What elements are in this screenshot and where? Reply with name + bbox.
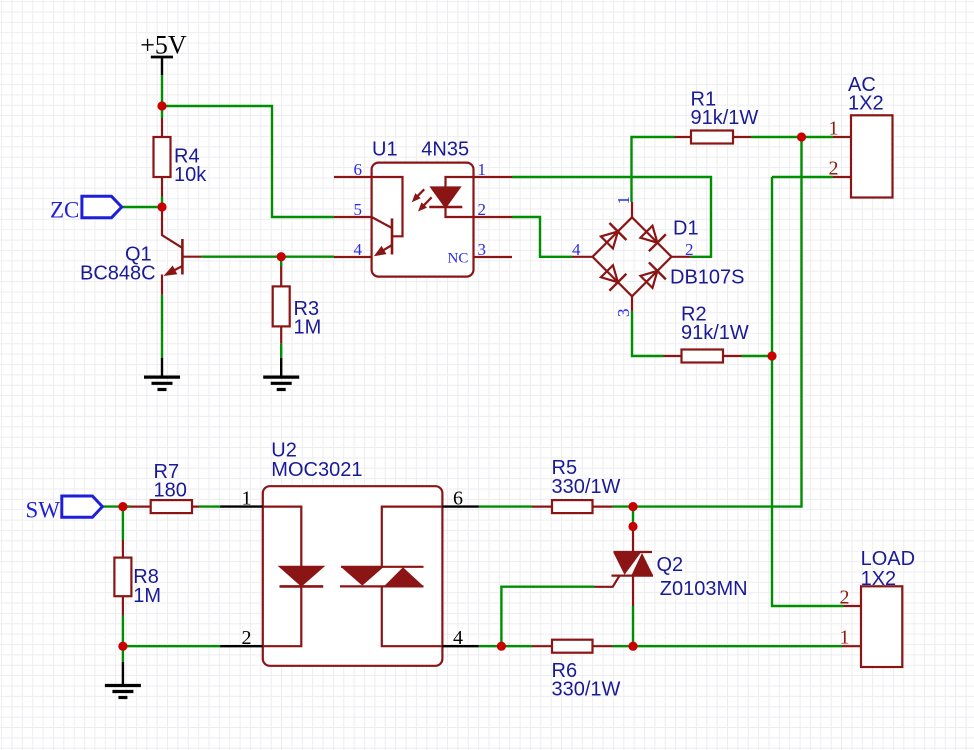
wire ZC port to junction <box>122 206 162 208</box>
svg-text:3: 3 <box>614 309 633 318</box>
D1 diode lower-right <box>638 262 666 290</box>
svg-text:ZC: ZC <box>50 198 79 223</box>
node Q2 top junction lower <box>628 522 637 531</box>
D1 pin 3 stub <box>631 296 633 311</box>
svg-text:Z0103MN: Z0103MN <box>660 578 748 600</box>
svg-text:4N35: 4N35 <box>421 138 469 160</box>
svg-text:330/1W: 330/1W <box>552 476 621 498</box>
svg-text:91k/1W: 91k/1W <box>691 107 759 129</box>
svg-text:NC: NC <box>448 251 469 267</box>
wire bridge pin3 down to R2 left <box>632 311 664 356</box>
svg-text:4: 4 <box>354 240 363 259</box>
ground at R3 <box>263 358 299 389</box>
wire gate net U2 pin4 junction to Q2 gate <box>501 587 594 647</box>
wire Q1 emitter to ground <box>161 295 163 359</box>
ground at R8 / SW net <box>105 662 141 698</box>
resistor R7 <box>130 500 199 513</box>
wire R8 bottom to ground junction <box>122 616 124 663</box>
transistor Q1 <box>162 207 201 295</box>
node R1/AC pin1 junction <box>797 132 806 141</box>
wire R2 right to junction <box>742 355 773 357</box>
port flag SW <box>62 496 103 517</box>
svg-text:91k/1W: 91k/1W <box>681 322 749 344</box>
wire R4 top pin net <box>161 106 163 118</box>
U2 LED <box>263 507 323 647</box>
port flag ZC <box>82 196 122 217</box>
node R5/Q2 top junction upper <box>628 502 637 511</box>
svg-text:1: 1 <box>478 160 487 179</box>
wire Q2 bottom to R6 junction <box>632 606 634 646</box>
connector AC 1X2 <box>833 115 893 197</box>
svg-text:DB107S: DB107S <box>670 267 745 289</box>
svg-text:1X2: 1X2 <box>861 568 897 590</box>
wire Q1 base to R3 to U1 pin4 <box>201 256 334 258</box>
svg-text:1: 1 <box>242 487 252 509</box>
svg-text:180: 180 <box>154 480 187 502</box>
wire AC pin2 down to LOAD pin2 <box>772 177 844 606</box>
wire bridge pin1 up to R1 left <box>632 137 675 202</box>
resistor R6 <box>532 640 613 653</box>
opto-triac U2 body <box>263 486 443 666</box>
wire R8 top stub <box>122 507 124 540</box>
U2 triac <box>340 507 442 647</box>
resistor R4 <box>154 118 171 197</box>
node R2/vertical junction <box>767 351 776 360</box>
svg-text:3: 3 <box>478 240 487 259</box>
wire R3 top stub <box>280 257 282 266</box>
wire Q2 top junction pair <box>632 507 634 527</box>
U2 pin 2 line <box>220 645 262 647</box>
resistor R3 <box>273 266 290 343</box>
ground at Q1 emitter <box>144 358 180 389</box>
node U2 pin4/gate junction <box>497 642 506 651</box>
node base/R3 junction <box>277 252 286 261</box>
wire R6 right to LOAD pin1 <box>613 645 843 647</box>
svg-text:U1: U1 <box>372 138 398 160</box>
svg-text:2: 2 <box>685 240 694 259</box>
node R8/ground junction <box>118 642 127 651</box>
svg-text:Q2: Q2 <box>657 554 684 576</box>
svg-text:D1: D1 <box>673 218 699 240</box>
wire R1 right to AC pin1 <box>751 136 833 138</box>
TEXTS <box>62 196 122 517</box>
U1 pin 2 <box>474 216 513 218</box>
D1 pin 2 stub <box>672 256 691 258</box>
wire R7 right to U2 pin1 <box>199 505 221 507</box>
svg-text:LOAD: LOAD <box>861 548 915 570</box>
wire U2 pin4 to R6 left <box>479 645 532 647</box>
svg-text:1M: 1M <box>133 585 161 607</box>
node SW junction <box>118 502 127 511</box>
U1 pin 1 <box>474 176 513 178</box>
U1 phototransistor <box>372 177 403 256</box>
connector LOAD 1X2 <box>842 586 902 667</box>
svg-text:330/1W: 330/1W <box>552 679 621 701</box>
BLACKPARTS <box>105 57 479 698</box>
wire ground junction to U2 pin2 <box>123 645 221 647</box>
U1 pin 4 <box>334 256 372 258</box>
svg-text:2: 2 <box>840 587 850 609</box>
U2 pin 4 line <box>442 645 478 647</box>
wire R3 bottom to ground <box>280 343 282 358</box>
svg-text:2: 2 <box>242 627 252 649</box>
svg-text:4: 4 <box>453 627 463 649</box>
svg-text:+5V: +5V <box>140 31 187 60</box>
svg-text:4: 4 <box>572 240 581 259</box>
svg-text:MOC3021: MOC3021 <box>271 459 362 481</box>
svg-text:1: 1 <box>840 627 850 649</box>
diode bridge D1 frame <box>593 217 672 296</box>
D1 pin 4 stub <box>572 256 593 258</box>
resistor R1 <box>675 131 752 144</box>
U1 pin 3 <box>474 256 513 258</box>
wire U1 pin1 to bridge pin2 <box>512 177 711 257</box>
D1 diode upper-right <box>638 223 666 251</box>
svg-text:10k: 10k <box>174 164 207 186</box>
U1 pin 6 <box>334 176 372 178</box>
resistor R2 <box>664 350 742 363</box>
wire SW port to junction <box>102 505 130 507</box>
resistor R5 <box>532 500 613 513</box>
svg-text:1: 1 <box>614 196 633 205</box>
D1 diode lower-left <box>598 263 626 291</box>
node R6/Q2 bottom junction <box>628 642 637 651</box>
node +5V/R4 junction <box>157 101 166 110</box>
U1 pin 5 <box>334 216 372 218</box>
wire +5V stub to junction <box>161 75 163 107</box>
U2 pin 1 line <box>220 505 262 507</box>
triac Q2 <box>595 527 654 607</box>
D1 diode upper-left <box>598 223 626 251</box>
svg-text:SW: SW <box>26 497 61 522</box>
wire U2 pin6 to R5 left <box>479 505 532 507</box>
U2 pin 6 line <box>442 505 478 507</box>
svg-text:6: 6 <box>453 487 463 509</box>
U1 light arrow a <box>412 189 424 202</box>
wire R4 bottom to ZC junction <box>161 197 163 208</box>
op-coupler U1 body <box>372 163 474 277</box>
node ZC junction <box>157 202 166 211</box>
svg-text:5: 5 <box>354 200 363 219</box>
D1 pin 1 stub <box>631 202 633 217</box>
svg-text:BC848C: BC848C <box>80 263 156 285</box>
svg-text:6: 6 <box>354 160 363 179</box>
U1 light arrow b <box>418 197 432 211</box>
wire +5V junction to U1 pin5 <box>162 106 334 217</box>
wire SW junction to R7 <box>123 505 130 507</box>
svg-text:2: 2 <box>829 158 839 180</box>
svg-text:1: 1 <box>829 118 839 140</box>
svg-text:1M: 1M <box>294 317 322 339</box>
svg-text:2: 2 <box>478 200 487 219</box>
wire U1 pin2 to bridge pin4 <box>512 217 572 257</box>
wire AC pin1 junction down to Q2 top junction <box>633 137 802 507</box>
wire R5 right to Q2 junction <box>613 505 634 507</box>
U1 LED <box>429 177 473 217</box>
+5V supply symbol <box>151 57 173 75</box>
resistor R8 <box>114 540 131 616</box>
svg-text:1X2: 1X2 <box>848 92 884 114</box>
